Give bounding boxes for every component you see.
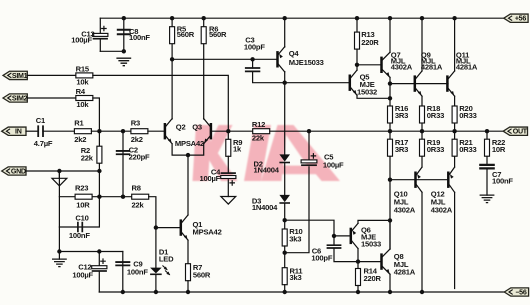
svg-text:1N4004: 1N4004 — [254, 166, 280, 175]
ground symbol bottom left — [58, 252, 60, 260]
wire Q1 emitter to R7 — [187, 240, 189, 264]
wire R15 to Q3 base node — [93, 75, 228, 131]
wire Q7 collector to +56 — [389, 18, 391, 52]
resistor R5 — [171, 18, 173, 119]
wire D3 node to C6 and Q6 base — [285, 220, 350, 236]
svg-text:0R33: 0R33 — [427, 111, 444, 120]
svg-text:R23: R23 — [75, 184, 88, 193]
svg-text:R3: R3 — [131, 118, 140, 127]
svg-text:4281A: 4281A — [421, 62, 443, 71]
ground under C4 — [221, 197, 236, 205]
resistor R12 — [228, 130, 252, 132]
wire Q4 emitter to +56 — [284, 18, 286, 47]
svg-text:GND: GND — [11, 167, 26, 175]
transistor Q4 MJE15033 — [276, 51, 279, 67]
resistor R8 — [132, 194, 149, 199]
capacitor C5 — [308, 131, 310, 160]
transistor Q10 MJL4302A — [414, 172, 417, 188]
svg-text:3R3: 3R3 — [395, 111, 408, 120]
svg-text:Q4: Q4 — [289, 49, 300, 58]
wire C1 to R1 — [43, 130, 74, 132]
wire ground node to C12 C9 — [59, 251, 122, 253]
wire D3 to R10 — [284, 204, 286, 230]
svg-text:0R33: 0R33 — [427, 145, 444, 154]
transistor Q1 MPSA42 — [156, 227, 180, 229]
svg-text:100nF: 100nF — [129, 33, 150, 42]
diode D2 1N4004 — [279, 154, 290, 161]
resistor R14 — [357, 262, 359, 269]
wire Q11 emitter to R20 — [454, 96, 456, 106]
svg-text:220R: 220R — [361, 38, 379, 47]
wire Q5 emitter to driver node — [357, 95, 390, 98]
resistor R17 — [389, 131, 391, 249]
wire Q4 collector to bias chain — [284, 72, 286, 155]
wire R3 to Q2 base — [148, 130, 165, 132]
wire left feedback column — [58, 171, 60, 252]
svg-text:10R: 10R — [76, 200, 90, 209]
svg-text:560R: 560R — [209, 30, 227, 39]
svg-text:C10: C10 — [75, 214, 88, 223]
svg-text:0R33: 0R33 — [459, 111, 476, 120]
wire Q10 collector to -56 — [421, 192, 423, 292]
capacitor C7 — [479, 165, 495, 169]
transistor Q2 MPSA42 — [164, 123, 167, 139]
svg-text:4302A: 4302A — [391, 62, 413, 71]
svg-text:3k3: 3k3 — [289, 235, 301, 244]
svg-text:22k: 22k — [81, 154, 94, 163]
capacitor C1 — [38, 125, 43, 137]
input flag SIM2 — [3, 94, 27, 102]
svg-text:100µF: 100µF — [323, 160, 344, 169]
wire Q9 Q11 base line — [390, 83, 448, 85]
resistor R11 — [282, 268, 287, 285]
svg-text:22k: 22k — [252, 134, 265, 143]
diode D3 1N4004 — [279, 195, 290, 202]
wire Q8 collector up — [389, 220, 391, 249]
svg-text:R12: R12 — [252, 120, 265, 129]
svg-text:220pF: 220pF — [129, 153, 150, 162]
svg-text:10k: 10k — [76, 100, 89, 109]
input flag GND — [2, 167, 26, 175]
resistor R19 — [421, 131, 423, 167]
wire Q6 emitter to Q8 collector — [358, 220, 390, 223]
resistor R18 — [421, 106, 423, 131]
svg-text:10k: 10k — [76, 77, 89, 86]
svg-text:+56: +56 — [515, 15, 526, 23]
svg-text:4281A: 4281A — [394, 268, 416, 277]
transistor Q5 MJE15032 — [349, 75, 352, 91]
svg-text:22k: 22k — [132, 200, 145, 209]
svg-text:3R3: 3R3 — [395, 145, 408, 154]
ground under C8 — [116, 58, 131, 65]
svg-text:4302A: 4302A — [394, 205, 416, 214]
wire Q2 Q3 common emitters — [172, 144, 204, 155]
resistor R20 — [454, 106, 456, 131]
wire SIM2 to R4 — [27, 97, 76, 99]
resistor R4 — [76, 96, 93, 101]
transistor Q3 MPSA42 — [210, 123, 213, 139]
svg-text:560R: 560R — [193, 270, 211, 279]
resistor R10 — [282, 229, 287, 246]
svg-text:2k2: 2k2 — [74, 135, 86, 144]
wire SIM1 to R15 — [27, 74, 76, 76]
wire Q5 collector to R13 node and Q7 base — [356, 65, 358, 70]
wire Q9 collector to +56 — [421, 18, 423, 71]
wire Q11 collector to +56 — [454, 18, 456, 71]
transistor Q7 MJL4302A — [380, 57, 383, 73]
svg-text:100µF: 100µF — [200, 174, 221, 183]
resistor R16 — [389, 106, 391, 131]
wire Q3 base node — [211, 130, 228, 132]
wire Q10 Q12 base line — [390, 179, 448, 181]
svg-text:1k: 1k — [233, 144, 242, 153]
svg-text:R15: R15 — [76, 64, 90, 73]
capacitor C4 — [221, 172, 236, 174]
svg-text:−56: −56 — [515, 288, 526, 296]
transistor Q9 MJL4281A — [414, 75, 417, 91]
capacitor C9 — [122, 252, 124, 293]
capacitor C6 — [333, 236, 335, 245]
wire R5 to C3 and Q4 base — [172, 58, 277, 60]
capacitor C12 — [98, 252, 100, 266]
transistor Q8 MJL4281A — [358, 261, 380, 263]
svg-text:220R: 220R — [364, 274, 382, 283]
ground symbol at GND flag — [58, 171, 60, 178]
wire Q12 collector to -56 — [454, 192, 456, 288]
power flag +56 — [504, 14, 528, 22]
svg-text:100nF: 100nF — [69, 231, 90, 240]
capacitor C13 — [99, 18, 101, 33]
resistor R1 — [74, 129, 91, 134]
svg-text:100pF: 100pF — [244, 42, 265, 51]
svg-text:Q3: Q3 — [192, 123, 202, 132]
svg-text:100µF: 100µF — [72, 270, 93, 279]
svg-text:100µF: 100µF — [71, 36, 92, 45]
power flag -56 — [504, 288, 528, 296]
svg-text:R1: R1 — [74, 118, 84, 127]
capacitor C10 — [59, 171, 99, 227]
svg-text:Q2: Q2 — [176, 123, 186, 132]
resistor R6 — [203, 18, 205, 119]
wire R4 to input node — [93, 98, 100, 131]
LED D1 emission arrows — [163, 266, 170, 275]
svg-text:IN: IN — [15, 128, 22, 136]
capacitor C2 — [122, 131, 124, 197]
resistor R15 — [76, 73, 93, 78]
svg-text:OUT: OUT — [513, 128, 528, 136]
svg-text:100pF: 100pF — [311, 253, 332, 262]
svg-text:4281A: 4281A — [456, 62, 478, 71]
resistor R2 — [98, 131, 100, 171]
svg-text:15033: 15033 — [361, 239, 381, 248]
wire R1 to R3 with taps — [91, 130, 130, 132]
input flag SIM1 — [3, 71, 27, 79]
wire GND line — [26, 170, 99, 172]
capacitor C8 — [123, 18, 125, 51]
ground under C7 — [480, 195, 495, 203]
transistor Q6 MJE15033 — [350, 228, 353, 244]
capacitor C3 — [252, 59, 254, 68]
svg-text:3k3: 3k3 — [290, 273, 302, 282]
svg-text:R8: R8 — [132, 184, 141, 193]
svg-text:0R33: 0R33 — [459, 145, 476, 154]
resistor R3 — [131, 129, 148, 134]
wire Q8 emitter to -56 — [389, 274, 391, 292]
svg-text:SIM1: SIM1 — [12, 72, 28, 80]
wire IN to C1 — [26, 130, 38, 132]
svg-text:LED: LED — [159, 255, 174, 264]
wire R8 to Q1 base and D1 — [149, 197, 156, 268]
svg-text:1N4004: 1N4004 — [252, 203, 278, 212]
svg-text:100nF: 100nF — [492, 177, 513, 186]
resistor R23 — [59, 196, 99, 198]
wire +56 top rail — [100, 17, 504, 19]
svg-text:2k2: 2k2 — [131, 135, 143, 144]
resistor R22 — [486, 131, 488, 164]
wire C13 to C8 ground node — [100, 50, 124, 52]
svg-text:MPSA42: MPSA42 — [193, 227, 222, 236]
svg-text:560R: 560R — [177, 30, 195, 39]
transistor Q12 MJL4302A — [447, 172, 450, 188]
svg-text:15032: 15032 — [357, 88, 377, 97]
wire Q6 collector to R14 node — [357, 249, 359, 262]
resistor R7 — [186, 264, 191, 281]
svg-text:100nF: 100nF — [127, 267, 148, 276]
svg-text:4302A: 4302A — [431, 205, 453, 214]
input flag IN — [2, 127, 26, 135]
resistor R13 — [356, 18, 358, 32]
transistor Q11 MJL4281A — [446, 75, 449, 91]
resistor R21 — [454, 131, 456, 167]
wire C4 to ground — [227, 180, 229, 197]
output flag OUT — [503, 127, 527, 135]
wire R23/R8 node to R8 — [99, 196, 131, 198]
LED D1 — [150, 268, 162, 274]
wire Q1 collector to diff pair emitters — [187, 155, 189, 215]
svg-text:MPSA42: MPSA42 — [175, 139, 204, 148]
wire -56 bottom rail — [99, 291, 504, 293]
svg-text:C1: C1 — [36, 116, 46, 125]
wire OUT rail — [270, 130, 503, 132]
wire D2 to D3 — [284, 163, 286, 195]
svg-text:MJE15033: MJE15033 — [289, 58, 324, 67]
resistor R9 — [227, 131, 229, 139]
svg-text:SIM2: SIM2 — [12, 94, 28, 102]
svg-text:4.7µF: 4.7µF — [34, 139, 53, 148]
svg-text:10R: 10R — [492, 145, 506, 154]
wire Q9 emitter to R18 — [421, 96, 423, 106]
svg-text:R4: R4 — [76, 87, 86, 96]
wire Q7 emitter / driver column — [389, 77, 391, 106]
